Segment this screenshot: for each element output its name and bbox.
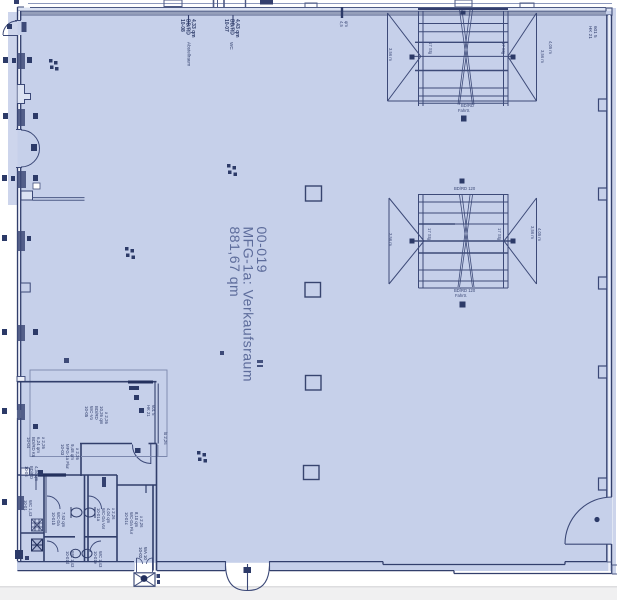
- svg-text:WC-Da: WC-Da: [56, 512, 61, 526]
- svg-text:x 2,26: x 2,26: [104, 412, 109, 425]
- WC right wall: [152, 485, 154, 571]
- top-right corner step: [606, 8, 612, 15]
- cluster y497-512: [2, 496, 24, 510]
- svg-text:9,48 qm: 9,48 qm: [70, 444, 75, 460]
- svg-text:Abstellraum: Abstellraum: [187, 42, 192, 66]
- svg-text:10-04: 10-04: [26, 437, 31, 449]
- cluster y232-252: [2, 231, 31, 251]
- cluster y58-70: [3, 53, 32, 69]
- svg-text:10-01b: 10-01b: [51, 512, 56, 526]
- upper office dark walls: [18, 382, 159, 476]
- column squares: [304, 186, 322, 480]
- svg-text:601 5: 601 5: [593, 26, 598, 38]
- outer thin top line: [28, 3, 612, 5]
- bottom gray strip: [0, 587, 617, 600]
- svg-text:WA 10: WA 10: [143, 547, 148, 560]
- stair1 top rail at wall: [418, 8, 508, 10]
- office bottom wall: [80, 443, 132, 445]
- stair1 center scissor X: [458, 10, 474, 105]
- svg-text:3,56 m: 3,56 m: [540, 50, 545, 63]
- bottom-right outer corner step: [607, 562, 617, 574]
- partition line y198 x32-84: [33, 197, 85, 199]
- svg-text:4,04 qm: 4,04 qm: [106, 508, 111, 524]
- WC mid horizontal wall: [44, 536, 75, 538]
- HK pair mark in room near (50,60): [49, 59, 59, 71]
- svg-text:10-06: 10-06: [24, 466, 29, 477]
- svg-text:10,26 qm: 10,26 qm: [99, 406, 104, 425]
- window gap in left wall y410: [17, 410, 22, 418]
- dark lintel on WC top wall: [38, 473, 66, 476]
- tick through wall x342: [341, 7, 343, 18]
- door D2 left double (swings inside): [16, 130, 40, 168]
- stair1 tread lines: [419, 23, 509, 25]
- stair2 right triangle: [504, 198, 537, 284]
- svg-text:BD/RD: BD/RD: [94, 406, 99, 420]
- svg-text:WC 1,43: WC 1,43: [28, 500, 33, 517]
- office door arc: [132, 444, 151, 465]
- svg-text:WC-Da Flur: WC-Da Flur: [129, 512, 134, 535]
- thin stall divider: [35, 475, 37, 490]
- svg-text:4,05 m: 4,05 m: [537, 228, 542, 241]
- svg-text:10-01: 10-01: [23, 500, 28, 511]
- right wall vertical label HK: [588, 26, 598, 39]
- stair2 tread lines: [419, 201, 509, 203]
- svg-text:WC-Da Vor: WC-Da Vor: [101, 508, 106, 530]
- svg-text:3,56 m: 3,56 m: [388, 233, 393, 246]
- svg-text:Fahrtr.: Fahrtr.: [455, 293, 467, 298]
- HK pair (228,165): [227, 164, 237, 176]
- svg-text:x 2,26: x 2,26: [41, 437, 46, 450]
- stair2 left triangle: [389, 198, 424, 284]
- stair1 body verticals: [418, 11, 420, 106]
- svg-text:MFG-1a Flur: MFG-1a Flur: [65, 444, 70, 469]
- dark corner mark bottom-left: [15, 550, 23, 559]
- cluster y405-420: [2, 404, 25, 420]
- svg-text:4,5: 4,5: [339, 21, 344, 27]
- svg-text:BD/RD: BD/RD: [229, 19, 235, 35]
- small mark (64,358): [64, 358, 69, 363]
- left outer strip: [8, 12, 18, 205]
- stair1 dimension marks: [410, 55, 415, 60]
- label: BD/RD Abstellraum: [179, 19, 196, 66]
- svg-text:10-05: 10-05: [84, 406, 89, 418]
- left wall notch y283: [21, 283, 31, 292]
- thin ceiling outline rect of upper office: [30, 370, 167, 457]
- cluster y327-340: [2, 325, 38, 341]
- office marks: [129, 386, 139, 390]
- WC stall door arcs: [47, 496, 102, 552]
- cluster y112-128: [3, 109, 38, 126]
- svg-text:4,43 qm: 4,43 qm: [234, 19, 240, 38]
- svg-text:BD/RD: BD/RD: [29, 466, 34, 479]
- right outer pale strip: [612, 8, 616, 574]
- svg-text:BD/RD Kü: BD/RD Kü: [31, 437, 36, 458]
- stair2 dimension marks: [410, 239, 415, 244]
- svg-text:10-01c: 10-01c: [124, 512, 129, 525]
- wall stub top-left corner: [18, 6, 25, 8]
- text cluster above exit door: [138, 547, 148, 560]
- svg-text:BD/RD: BD/RD: [185, 19, 191, 35]
- toilet fixtures lower pair: [71, 549, 93, 557]
- HK pair (126,248): [125, 247, 135, 259]
- stair1 bottom connect line: [388, 100, 537, 102]
- svg-text:4,33 qm: 4,33 qm: [190, 19, 196, 38]
- thin corridor line y456: [81, 456, 167, 458]
- stair2 body rect: [418, 194, 420, 288]
- svg-text:10-01e: 10-01e: [93, 551, 98, 565]
- labels above WC top wall: [24, 466, 39, 482]
- svg-text:10-08: 10-08: [179, 19, 185, 32]
- svg-text:lü 2,26: lü 2,26: [163, 432, 168, 445]
- toilet fixtures upper pair: [71, 507, 95, 518]
- bottom wall: [18, 562, 613, 574]
- pale band above top wall: [17, 8, 612, 13]
- svg-text:17 Stg: 17 Stg: [428, 42, 433, 55]
- svg-text:8,10 qm: 8,10 qm: [134, 512, 139, 528]
- ledge box at y191: [21, 191, 33, 200]
- svg-text:x 2,26: x 2,26: [111, 508, 116, 520]
- svg-text:10-01d: 10-01d: [65, 551, 70, 565]
- svg-text:HK 21: HK 21: [588, 26, 593, 39]
- svg-text:17 Stg: 17 Stg: [497, 228, 502, 241]
- crosshatch sink box 1: [32, 519, 43, 531]
- svg-text:4,05 m: 4,05 m: [548, 41, 553, 54]
- dark hatch box 2: [32, 539, 43, 551]
- svg-text:7,62 qm: 7,62 qm: [61, 512, 66, 528]
- svg-text:3,56 m: 3,56 m: [530, 226, 535, 239]
- office top wall: [18, 381, 157, 383]
- label: BD/RD WC: [223, 19, 240, 50]
- stair1 left triangle: [388, 13, 421, 101]
- small text right of top-left door: [22, 22, 27, 32]
- top wall band: [17, 11, 606, 15]
- door lintel dark segment on office top wall: [128, 381, 153, 384]
- left wall: [18, 7, 21, 561]
- svg-text:881,67 qm: 881,67 qm: [227, 227, 243, 298]
- svg-text:10-01a: 10-01a: [96, 508, 101, 522]
- svg-text:WC: WC: [229, 42, 234, 50]
- right wall: [607, 15, 612, 574]
- HK pair (198,452): [197, 451, 207, 463]
- right wall window notches: [599, 99, 607, 490]
- svg-text:qm: qm: [344, 21, 349, 27]
- svg-text:BD/RD 120: BD/RD 120: [454, 186, 476, 191]
- stub wall below office down to WC block: [80, 444, 82, 477]
- door D1 top-left (swings outside): [3, 21, 21, 36]
- svg-text:Fahrtr.: Fahrtr.: [458, 108, 470, 113]
- WC internal verticals: [43, 475, 45, 562]
- svg-text:17 Stg: 17 Stg: [427, 228, 432, 241]
- stair1 right triangle: [508, 13, 537, 101]
- svg-text:3,56 m: 3,56 m: [388, 48, 393, 61]
- WC door stub below top wall: [145, 485, 147, 493]
- door D3 bottom-right (hinged on right wall): [565, 497, 612, 544]
- svg-text:10-03: 10-03: [60, 444, 65, 456]
- svg-text:601 5: 601 5: [151, 405, 156, 416]
- WC top wall: [18, 474, 118, 476]
- dark tick top-left edge: [14, 0, 19, 4]
- svg-text:x 2,26: x 2,26: [139, 516, 144, 528]
- small white box at office top-left: [17, 377, 25, 382]
- svg-text:x 2,26: x 2,26: [75, 448, 80, 461]
- svg-text:WC 1,43: WC 1,43: [70, 551, 75, 568]
- door opening whites in bottom wall: [135, 563, 156, 571]
- svg-text:HK 21: HK 21: [146, 405, 151, 417]
- small mark (220,351): [220, 351, 224, 355]
- svg-text:10-02: 10-02: [138, 547, 143, 559]
- svg-text:WC 1,43: WC 1,43: [98, 551, 103, 568]
- svg-text:17 Stg: 17 Stg: [501, 42, 506, 55]
- leader lines: [188, 15, 190, 25]
- svg-text:WC-Vo: WC-Vo: [89, 406, 94, 420]
- stair2 center scissor X: [458, 195, 474, 287]
- cluster y172-189: [2, 171, 40, 189]
- svg-text:10-07: 10-07: [223, 19, 229, 32]
- svg-text:6,24 qm: 6,24 qm: [36, 437, 41, 453]
- office right wall: [154, 382, 156, 444]
- alcove in left wall y84-104: [18, 85, 31, 104]
